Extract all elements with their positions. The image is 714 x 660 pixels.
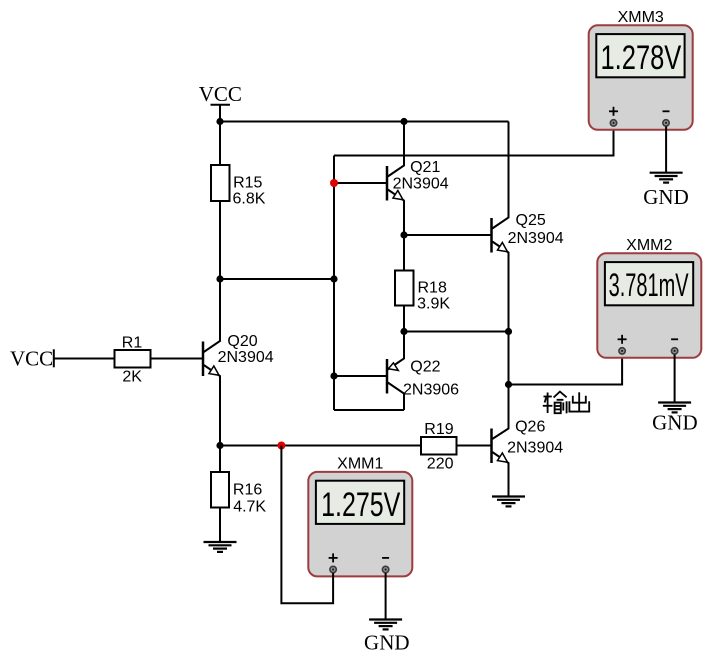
svg-text:R16: R16 — [233, 482, 262, 499]
transistor Q20 — [203, 279, 274, 446]
resistor R1 — [115, 334, 151, 385]
junction — [505, 328, 512, 335]
svg-text:2N3904: 2N3904 — [507, 440, 563, 457]
wire R1 to Q20 base — [151, 358, 203, 360]
multimeter XMM3 — [589, 9, 693, 130]
svg-text:Q20: Q20 — [227, 333, 257, 350]
junction — [216, 442, 223, 449]
ground Q26 emitter — [492, 497, 525, 507]
resistor R19 — [421, 421, 457, 472]
wire node A rail — [220, 278, 334, 280]
wire output node drop — [508, 332, 510, 385]
junction — [505, 381, 512, 388]
wire XMM1 plus probe — [281, 446, 333, 604]
junction — [330, 275, 337, 282]
svg-text:GND: GND — [364, 630, 410, 654]
multimeter XMM2 — [597, 237, 701, 358]
svg-text:3.9K: 3.9K — [417, 296, 450, 313]
multimeter XMM1 — [308, 456, 412, 577]
junction — [400, 328, 407, 335]
svg-text:R15: R15 — [233, 175, 262, 192]
svg-text:2N3904: 2N3904 — [508, 230, 564, 247]
ground XMM3 — [650, 173, 683, 183]
svg-text:2N3904: 2N3904 — [218, 349, 274, 366]
resistor R15 — [211, 165, 266, 208]
resistor R18 — [395, 235, 450, 332]
svg-text:XMM1: XMM1 — [337, 456, 383, 473]
svg-text:Q22: Q22 — [410, 359, 440, 376]
node red probe XMM1 tap — [277, 442, 285, 450]
junction — [330, 372, 337, 379]
power VCC top — [199, 82, 242, 106]
power VCC left — [10, 346, 54, 370]
svg-text:2N3904: 2N3904 — [393, 175, 449, 192]
wire bottom rail — [220, 445, 421, 447]
junction — [400, 118, 407, 125]
svg-text:VCC: VCC — [10, 346, 53, 370]
svg-text:Q25: Q25 — [516, 212, 546, 229]
svg-text:XMM2: XMM2 — [626, 237, 672, 254]
wire VCC to R1 — [54, 358, 115, 360]
svg-text:4.7K: 4.7K — [233, 499, 266, 516]
node red probe Q21 base — [330, 179, 338, 187]
wire Q21 base — [334, 182, 387, 184]
wire XMM1 minus to ground — [385, 573, 387, 620]
junction — [216, 275, 223, 282]
svg-text:3.781mV: 3.781mV — [609, 267, 689, 303]
transistor Q22 — [387, 332, 459, 411]
wire to XMM2 plus — [509, 351, 623, 385]
svg-text:R1: R1 — [122, 334, 143, 351]
junction — [216, 118, 223, 125]
label 输出 output — [543, 392, 589, 414]
wire R15 to node — [219, 201, 221, 279]
svg-text:R18: R18 — [418, 279, 447, 296]
ground R16 — [204, 542, 237, 552]
ground XMM2 — [658, 403, 691, 413]
wire XMM3 minus to ground — [665, 127, 667, 173]
wire XMM3 plus tap — [334, 123, 614, 156]
transistor Q21 — [387, 122, 449, 236]
svg-text:1.278V: 1.278V — [601, 40, 682, 77]
wire top rail — [220, 121, 509, 123]
wire R19 to Q26 base — [457, 445, 492, 447]
transistor Q26 — [492, 385, 564, 497]
wire mid rail — [404, 331, 509, 333]
svg-text:GND: GND — [652, 411, 698, 435]
transistor Q25 — [492, 122, 564, 332]
wire Q22 collector loop — [334, 409, 404, 411]
wire left vertical bus — [333, 156, 335, 411]
svg-text:GND: GND — [643, 185, 689, 209]
svg-text:1.275V: 1.275V — [321, 486, 400, 524]
wire Q25 base — [404, 234, 492, 236]
svg-text:VCC: VCC — [199, 82, 242, 106]
svg-text:2K: 2K — [122, 368, 142, 385]
svg-text:2N3906: 2N3906 — [403, 381, 459, 398]
wire Q22 base — [334, 375, 387, 377]
svg-text:220: 220 — [427, 456, 454, 473]
junction — [400, 231, 407, 238]
svg-text:XMM3: XMM3 — [618, 9, 664, 26]
svg-text:6.8K: 6.8K — [233, 191, 266, 208]
ground XMM1 — [369, 620, 402, 630]
wire VCC to R15 — [219, 105, 221, 165]
svg-text:Q26: Q26 — [515, 419, 545, 436]
wire XMM2 minus to ground — [674, 355, 676, 403]
resistor R16 — [211, 446, 266, 543]
svg-text:Q21: Q21 — [410, 159, 440, 176]
svg-text:R19: R19 — [424, 421, 453, 438]
